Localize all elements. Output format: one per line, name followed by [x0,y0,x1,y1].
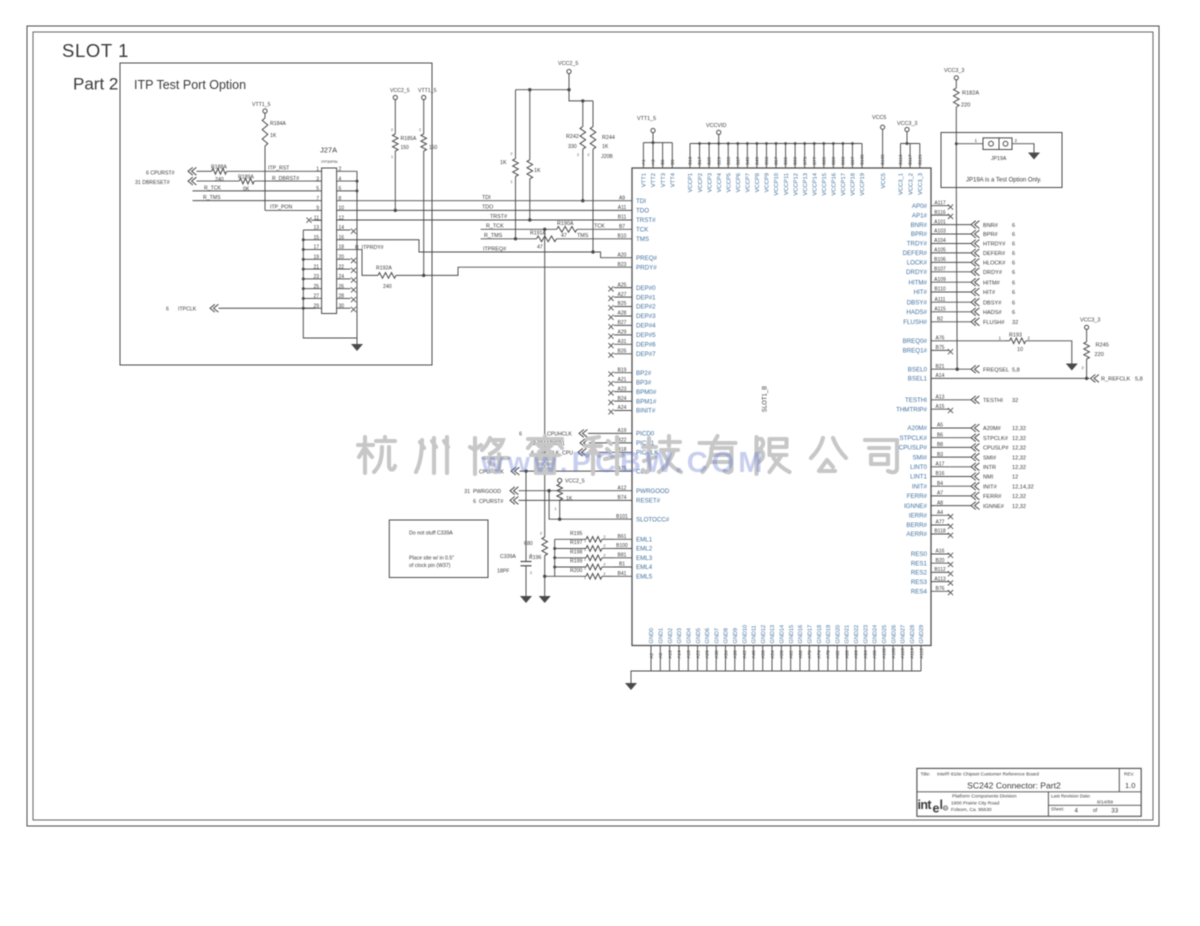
VCC3 power group pins B113 B117 B121 [900,144,902,169]
svg-text:HIT#: HIT# [914,289,928,296]
svg-text:VCCP13: VCCP13 [803,173,809,196]
svg-text:B121: B121 [917,154,922,165]
wire to SC242 B22 PICD1 [589,442,614,444]
svg-text:B3: B3 [937,452,943,458]
svg-text:680: 680 [524,541,533,547]
resistor R190A 47 (TCK series) [557,227,577,233]
svg-text:B33: B33 [726,156,731,165]
svg-text:SMI#: SMI# [983,455,997,461]
svg-text:RES1: RES1 [911,560,928,567]
SC242 pin A58 GND14 [780,646,782,672]
SC242 pin A117 AP0# (right) [931,205,950,207]
svg-text:1: 1 [584,557,586,561]
wire CPURST# to R188A [197,170,212,172]
power symbol VCC3_3 (connector) [906,132,908,144]
svg-text:EML1: EML1 [636,537,653,544]
svg-text:R184A: R184A [270,121,286,127]
wire R185A to TDO net [394,151,396,210]
svg-text:R245: R245 [1096,343,1109,349]
svg-text:CPUSLP#: CPUSLP# [983,446,1009,452]
svg-text:A23: A23 [618,386,627,392]
SC242 pin B100 EML2 (left) [614,548,632,550]
wire J27A pin 21 to left bus [303,268,315,270]
svg-text:B53: B53 [764,156,769,165]
svg-text:BPM1#: BPM1# [636,398,657,405]
svg-text:2: 2 [588,153,590,157]
svg-text:B116: B116 [934,210,946,216]
svg-text:A15: A15 [936,404,945,410]
svg-text:EML3: EML3 [636,555,653,562]
svg-text:6: 6 [1012,251,1015,257]
svg-text:JP19A is a Test Option Only.: JP19A is a Test Option Only. [966,178,1042,184]
connector SLOT1_B body [632,168,931,646]
svg-text:B89: B89 [831,156,836,165]
wire TMS to SC242 B10 [557,238,615,240]
svg-text:VCCP16: VCCP16 [832,173,838,196]
VCC3 bus wire [901,143,920,145]
VTT bus wire [643,142,672,144]
GND bus wire [631,671,921,683]
svg-text:B85: B85 [821,156,826,165]
svg-text:IGNNE#: IGNNE# [983,504,1005,510]
svg-text:1: 1 [530,553,532,557]
inner border frame [33,32,1153,820]
wire R193 to ground [1026,341,1072,364]
svg-text:VCC2_5: VCC2_5 [558,61,578,67]
svg-text:A115: A115 [934,307,946,313]
svg-text:BP2#: BP2# [636,370,652,377]
SC242 pin A20 PREQ# (left) [614,257,632,259]
svg-text:B41: B41 [618,571,627,577]
svg-text:6: 6 [1012,232,1015,238]
svg-text:6: 6 [1012,261,1015,267]
ground symbol below R196 [539,596,551,603]
svg-text:l: l [940,798,943,812]
SC242 pin A115 HADS# (right) [931,311,950,313]
wire 150 ohm resistor down to R192A net [423,151,425,275]
svg-text:PWRGOOD: PWRGOOD [636,488,670,495]
svg-text:2: 2 [577,153,579,157]
SC242 pin B116 AP1# (right) [931,214,950,216]
power symbol VTT1_5 [652,133,654,143]
off-page arrow DBSY# 6 [971,298,979,306]
svg-text:31: 31 [464,489,470,495]
svg-text:A66: A66 [798,650,803,659]
svg-text:B107: B107 [934,267,946,273]
svg-text:NMI: NMI [983,475,994,481]
svg-text:VCC3_3: VCC3_3 [944,68,964,74]
SC242 pin B22 PICD1 (left) [614,442,632,444]
svg-text:B73: B73 [802,156,807,165]
SC242 pin A25 DEP#0 (left) [614,287,632,289]
SC242 pin B76 RES4 (right) [931,590,950,592]
resistor R189A [239,178,254,184]
SC242 pin B61 EML1 (left) [614,538,632,540]
svg-text:B29: B29 [716,156,721,165]
svg-text:1: 1 [584,539,586,543]
svg-text:3: 3 [316,176,319,182]
svg-text:VCCP18: VCCP18 [851,173,857,196]
svg-text:A118: A118 [919,648,924,659]
J27A pin 23 stub [315,278,322,280]
svg-text:STPCLK#: STPCLK# [983,436,1009,442]
SC242 pin B1 EML4 (left) [614,566,632,568]
svg-text:12: 12 [1012,475,1018,481]
J27A pin 17 stub [315,249,322,251]
svg-text:B10: B10 [618,234,627,240]
svg-text:1: 1 [584,576,586,580]
svg-text:GND26: GND26 [891,625,897,644]
svg-text:1: 1 [584,567,586,571]
svg-text:R199: R199 [570,559,583,565]
svg-text:150: 150 [429,145,438,151]
off-page arrow TESTHI 32 [971,396,979,404]
wire LINT1 to off-page [950,476,971,478]
SC242 pin B23 PRDY# (left) [614,266,632,268]
off-page arrow STPCLK# 12,32 [971,434,979,442]
wire to R242/R244 tops [569,90,593,101]
svg-text:6: 6 [1012,223,1015,229]
wire SMI# to off-page [950,456,971,458]
svg-text:GND3: GND3 [677,628,683,644]
resistor R200 (EML5 strap) [555,575,586,577]
wire INIT# to off-page [950,485,971,487]
svg-text:FERR#: FERR# [907,493,928,500]
svg-text:12,32: 12,32 [1012,446,1026,452]
wire R188A to J27A pin 1, net ITP_RST [227,170,315,172]
wire HIT# to off-page [950,291,971,293]
svg-text:PWRGOOD: PWRGOOD [473,489,501,495]
resistor R242 330 (TDI pull-up) [582,101,584,127]
svg-text:B11: B11 [618,215,627,221]
svg-text:ITP Test Port Option: ITP Test Port Option [134,78,246,92]
svg-text:VCC2_5: VCC2_5 [390,88,410,94]
SC242 pin B20 RES1 (right) [931,562,950,564]
svg-text:A17: A17 [936,462,945,468]
SC242 pin B81 EML3 (left) [614,557,632,559]
svg-text:GND10: GND10 [742,625,748,644]
svg-text:EML2: EML2 [636,546,653,553]
svg-text:B75: B75 [936,345,945,351]
svg-text:R_TMS: R_TMS [203,195,221,201]
SC242 pin B75 BREQ1# (right) [931,349,950,351]
off-page arrow CPURST# [188,167,196,175]
svg-text:R198: R198 [570,549,583,555]
svg-text:VCC3_2: VCC3_2 [908,173,914,195]
svg-text:VCCP8: VCCP8 [755,173,761,192]
SC242 pin A46 GND11 [752,646,754,672]
wire to SC242 B18 PICCLK [587,451,614,453]
svg-text:TDO: TDO [636,208,649,215]
svg-text:B23: B23 [618,262,627,268]
svg-text:TESTHI: TESTHI [905,397,927,404]
SC242 pin A94 GND23 [864,646,866,672]
wire TDI from J27A pin 8 to SC242 A9 [337,200,614,202]
SC242 pin A77 BERR# (right) [931,524,950,526]
svg-text:B69: B69 [793,156,798,165]
svg-text:A4: A4 [937,510,943,516]
resistor R188A [212,169,227,175]
svg-text:A18: A18 [686,650,691,659]
off-page arrow INTR 12,32 [971,463,979,471]
svg-text:of: of [1093,808,1098,814]
svg-text:GND5: GND5 [696,628,702,644]
svg-text:12,32: 12,32 [1012,465,1026,471]
svg-text:32: 32 [1012,398,1018,404]
resistor R185A 150 (TDO pull-up) [393,134,399,151]
resistor R198 (EML3 strap) [555,557,586,559]
svg-text:VTT3: VTT3 [661,173,667,187]
svg-text:VCCP17: VCCP17 [841,173,847,196]
svg-text:SLOT 1: SLOT 1 [62,40,129,61]
svg-text:A42: A42 [742,650,747,659]
SC242 pin A66 GND16 [799,646,801,672]
SC242 pin A113 RES3 (right) [931,581,950,583]
svg-text:R_DBRST#: R_DBRST# [272,176,299,182]
svg-text:IGNNE#: IGNNE# [904,503,928,510]
svg-text:DEP#6: DEP#6 [636,342,656,349]
net R_TCK wire [481,228,557,230]
wire R245 to BSEL1 / R_REFCLK net [1086,359,1088,378]
off-page arrow INIT# 12,14,32 [971,482,979,490]
wire FERR# to off-page [950,495,971,497]
off-page arrow HITM# 6 [971,278,979,286]
SC242 pin B112 RES2 (right) [931,571,950,573]
off-page arrow FERR# 12,32 [971,492,979,500]
svg-text:VCCP1: VCCP1 [688,173,694,192]
SC242 pin A62 GND15 [790,646,792,672]
svg-text:1K: 1K [500,160,507,166]
svg-text:ITP_PON: ITP_PON [270,205,292,211]
wire BSEL1 to off-page R_REFCLK [950,377,1090,379]
resistor R182A 220 [955,80,957,88]
SC242 pin A28 DEP#3 (left) [614,315,632,317]
wire JP19A pin 2 to ground [1012,144,1034,153]
svg-text:VCCP6: VCCP6 [736,173,742,192]
svg-text:220: 220 [1095,352,1104,358]
svg-text:6: 6 [473,499,476,505]
svg-text:VCC3_3: VCC3_3 [918,173,924,195]
svg-text:A14: A14 [677,650,682,659]
svg-text:BINIT#: BINIT# [636,408,656,415]
svg-text:1K: 1K [566,496,573,502]
svg-text:A19: A19 [618,428,627,434]
wire CPUSLP# to off-page [950,446,971,448]
SC242 pin A4 IERR# (right) [931,514,950,516]
svg-text:AP0#: AP0# [912,203,928,210]
svg-text:GND15: GND15 [789,625,795,644]
ground symbol for R193 [1066,364,1078,371]
svg-text:Platform Components Division: Platform Components Division [952,794,1017,800]
svg-text:DEP#1: DEP#1 [636,294,656,301]
svg-text:6: 6 [1012,242,1015,248]
svg-text:47: 47 [537,245,543,251]
SC242 pin A9 TDI (left) [614,200,632,202]
off-page arrow ITPCLK [210,304,218,312]
svg-text:A82: A82 [835,650,840,659]
title block horizontal divider [917,791,1141,793]
svg-text:IERR#: IERR# [909,513,928,520]
svg-text:GND4: GND4 [686,628,692,644]
wire BPR# to off-page [950,233,971,235]
svg-text:CPUHCLK: CPUHCLK [547,432,572,438]
svg-text:R192A: R192A [376,266,392,272]
SC242 pin A114 GND28 [911,646,913,672]
svg-text:A114: A114 [909,648,914,659]
SC242 pin B21 BSEL0 (right) [931,368,950,370]
SC242 pin A8 IGNNE# (right) [931,505,950,507]
svg-text:12,32: 12,32 [1012,426,1026,432]
svg-text:BNR#: BNR# [983,223,999,229]
resistor 1K (TRST# pull-up) [529,90,531,160]
svg-text:VCC3_1: VCC3_1 [899,173,905,195]
svg-text:B112: B112 [934,567,946,573]
wire VCC2_5 down [568,74,570,90]
off-page arrow IGNNE# 12,32 [971,502,979,510]
SC242 pin A5 A20M# (right) [931,427,950,429]
svg-text:12,14,32: 12,14,32 [1012,484,1034,490]
wire HADS# to off-page [950,311,971,313]
svg-text:B24: B24 [618,396,627,402]
svg-text:A101: A101 [934,219,946,225]
capacitor C339A 18PF [521,561,532,563]
svg-text:A104: A104 [934,238,946,244]
svg-text:A110: A110 [900,648,905,659]
wire FLUSH# to off-page [950,321,971,323]
off-page arrow HADS# 6 [971,308,979,316]
svg-text:A111: A111 [935,297,946,303]
svg-text:JP19A: JP19A [991,156,1007,162]
wire VTT1_5 to R184A [264,113,266,118]
svg-text:11: 11 [314,215,319,221]
svg-text:B6: B6 [660,159,665,165]
SC242 pin A78 GND19 [827,646,829,672]
SC242 pin A23 BPM0# (left) [614,391,632,393]
svg-text:BPR#: BPR# [983,232,999,238]
svg-text:A28: A28 [618,311,627,317]
svg-text:31 DBRESET#: 31 DBRESET# [135,180,170,186]
SC242 pin B107 DRDY# (right) [931,271,950,273]
svg-text:GND19: GND19 [826,625,832,644]
SC242 pin A10 GND2 [669,646,671,672]
svg-text:4: 4 [1075,808,1079,815]
note box: Do not stuff C339A [389,520,488,578]
SC242 pin B74 RESET# (left) [614,499,632,501]
svg-text:GND21: GND21 [845,625,851,644]
J27A left bus joining pins 13-29 [303,230,357,338]
SC242 pin A90 GND22 [855,646,857,672]
off-page arrow DEFER# 6 [971,249,979,257]
off-page arrow FREQSEL 5,8 [971,365,979,373]
svg-text:GND2: GND2 [668,628,674,644]
svg-text:R191A: R191A [530,231,546,237]
power symbol VCC2_5 (PWRGOOD 1K pull-up) [558,478,562,482]
resistor R193 10 [1010,338,1026,344]
svg-text:AERR#: AERR# [906,531,927,538]
title block REV divider [1118,768,1120,791]
SC242 pin A50 GND12 [762,646,764,672]
svg-text:VTT1: VTT1 [642,173,648,187]
svg-text:R182A: R182A [962,91,979,97]
wire R189A to J27A pin 3, net R_DBRST# [254,180,315,182]
SC242 pin B6 STPCLK# (right) [931,437,950,439]
svg-text:B49: B49 [754,156,759,165]
SC242 pin A27 DEP#1 (left) [614,296,632,298]
wire DRDY# to off-page [950,271,971,273]
svg-text:B117: B117 [908,154,913,165]
wire to SC242 A12 PWRGOOD [519,490,615,492]
ITP Test Port Option enclosure box [120,63,432,365]
svg-text:A102: A102 [882,647,887,658]
wire J27A pin 18, net R_ITPRDY# [337,250,378,276]
wire ITPCLK to pin 29 [219,307,316,309]
svg-text:BPR#: BPR# [911,231,928,238]
svg-text:Title:: Title: [921,772,931,777]
svg-text:A7: A7 [937,491,943,497]
svg-text:9: 9 [316,206,319,212]
svg-text:1: 1 [584,548,586,552]
ground symbol JP19A [1028,153,1040,160]
svg-text:1K: 1K [270,133,277,139]
svg-text:Intel® 810e Chipset Customer R: Intel® 810e Chipset Customer Reference B… [937,771,1039,778]
wire 1K to TRST# net [529,179,531,220]
svg-text:7: 7 [316,196,319,202]
svg-text:DEFER#: DEFER# [983,251,1006,257]
J27A pin 25 stub [315,288,322,290]
resistor R191A 47 (TMS series) [537,236,557,242]
svg-text:A21: A21 [618,377,627,383]
svg-text:2: 2 [540,532,542,536]
resistor R195 (EML1 strap) [555,538,586,540]
svg-text:1: 1 [555,507,557,511]
svg-text:B27: B27 [618,320,627,326]
svg-text:47: 47 [561,233,567,239]
svg-text:B113: B113 [898,154,903,165]
svg-text:GND6: GND6 [705,628,711,644]
wire BREQ0# to R193 [950,340,1004,342]
title block outer rect [917,768,1141,816]
svg-text:A8: A8 [937,500,943,506]
svg-text:R244: R244 [602,135,615,141]
SC242 pin B8 CPUSLP# (right) [931,446,950,448]
wire TCK to SC242 B7 [577,228,614,230]
svg-text:Place site w/ in 0.5": Place site w/ in 0.5" [409,556,454,562]
svg-text:VCCP12: VCCP12 [793,173,799,196]
off-page arrow A20M# 12,32 [971,424,979,432]
svg-text:R185A: R185A [401,136,417,142]
svg-text:Last Revision Date:: Last Revision Date: [1051,794,1091,799]
svg-text:TDI: TDI [636,198,646,205]
svg-text:5,8: 5,8 [1135,377,1143,383]
svg-text:A30: A30 [714,650,719,659]
svg-text:J27A: J27A [320,146,337,155]
wire R182A into JP19A box [955,107,957,144]
svg-text:B1: B1 [619,562,625,568]
svg-text:TESTHI: TESTHI [983,398,1003,404]
svg-text:B37: B37 [735,156,740,165]
wire STPCLK# to off-page [950,437,971,439]
junction CLK with C339A [524,469,527,472]
svg-text:B93: B93 [840,156,845,165]
svg-text:6: 6 [1012,280,1015,286]
svg-text:HITM#: HITM# [908,279,927,286]
svg-text:A1: A1 [641,159,646,165]
svg-text:TRDY#: TRDY# [907,241,928,248]
svg-text:B105: B105 [860,154,865,165]
SC242 pin A21 BP3# (left) [614,381,632,383]
svg-text:B61: B61 [618,534,627,540]
wire to SC242 A19 PICD0 [588,432,614,434]
